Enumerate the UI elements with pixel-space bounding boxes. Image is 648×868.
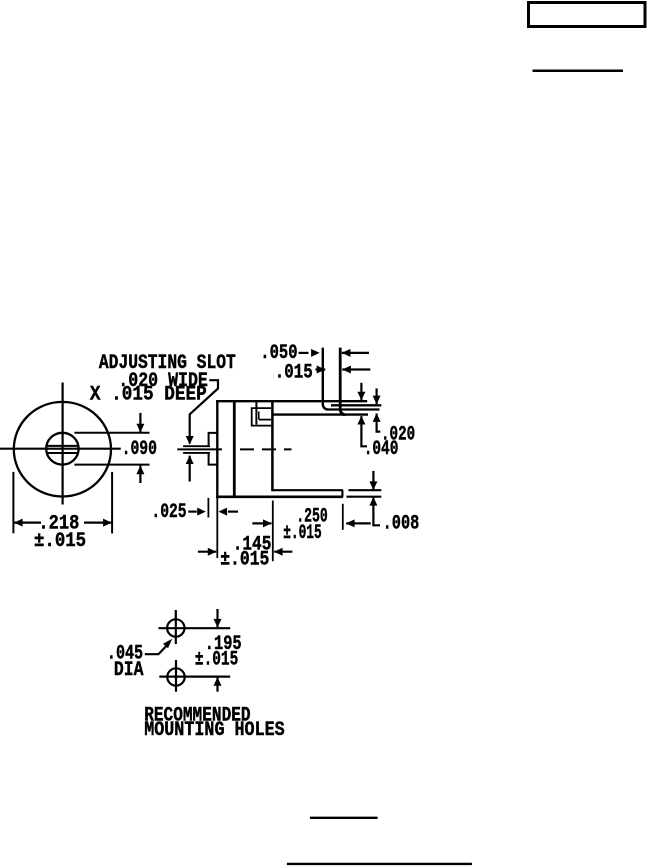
adjusting slot upper chord [47,445,79,447]
dim .145 left arrow [198,548,217,556]
dim .195 upper arrow [214,609,222,628]
dim .195 lower arrow [214,677,222,692]
dim .015 right arrow [342,366,370,374]
body left extension line [216,494,218,558]
svg-text:DIA: DIA [114,659,144,682]
dim .218 right arrow [84,519,112,527]
bottom rule [287,863,472,865]
dim .040 lower arrow with leader [357,416,367,446]
dim .008 lower arrow with leader [369,497,380,525]
wiper detail box [252,408,272,426]
dim .090 upper arrow [136,413,144,433]
slot width lower arrow [186,455,194,481]
dim .050 left arrow [299,349,320,357]
adjustment boss outline [209,433,218,465]
svg-text:.090: .090 [122,438,157,461]
dim .090 upper extension line [74,432,149,434]
mounting hole top vertical centerline [175,610,177,644]
dim .050 right arrow [342,349,369,357]
mounting hole bottom vertical centerline [175,660,177,692]
dim .020 upper arrow [373,388,381,404]
front view outer circle [14,402,111,497]
bottom pin end edge [341,490,343,497]
pin end extension line [342,504,344,530]
middle pin top face B2 [331,404,381,406]
side view horizontal centerline solid part [177,448,222,450]
top pin inner bend V2 [340,348,345,415]
side view internal divider line [233,400,236,498]
svg-text:±.015: ±.015 [34,530,86,553]
mounting hole top horizontal centerline [159,627,231,629]
dim .020 lower arrow with leader [373,413,381,431]
dim .218 left arrow [14,519,41,527]
body right extension line [272,501,274,562]
mounting hole bottom horizontal centerline [159,675,230,677]
adjusting slot note leader line [190,380,218,443]
dim .090 lower extension line [74,464,149,466]
title box top right [529,3,646,27]
side view body left edge [216,400,218,498]
dim .218 right extension line [111,472,113,534]
dim .025 right arrow [219,508,239,516]
svg-text:±.015: ±.015 [283,522,322,545]
slot depth lower line [183,452,210,454]
bottom pin top face [272,489,343,491]
dim .008 upper extension line [349,489,382,491]
front view horizontal centerline [0,448,121,450]
dim .008 lower extension line [347,496,382,498]
svg-text:MOUNTING HOLES: MOUNTING HOLES [144,719,285,742]
figure label underline [310,817,378,819]
wiper detail inner horizontal line [259,419,272,421]
wiper detail vertical line [255,401,257,424]
front view vertical centerline [61,383,63,505]
dim .045 leader line [145,643,169,654]
svg-text:±.015: ±.015 [195,648,238,671]
adjusting slot note leader arrowhead [186,436,194,445]
side view horizontal centerline dashes [240,448,292,450]
dim .090 lower arrow [136,465,144,483]
svg-text:±.015: ±.015 [220,549,269,572]
dim .145 right arrow [274,548,292,556]
front view inner circle [46,433,78,465]
side view body right edge [271,400,274,491]
slot depth upper line [183,445,210,447]
dim .015 left arrow [316,366,326,374]
header underline [533,70,624,73]
dim .045 leader arrowhead [163,639,172,649]
top pin outer bend V1 [323,348,328,410]
middle pin lower line B3 [328,408,380,410]
boss left extension line [207,498,209,518]
mounting hole top circle [167,619,184,636]
adjusting slot lower chord [47,452,79,454]
dim .218 left extension line [12,472,14,533]
svg-text:.025: .025 [151,501,186,524]
side view body top edge extending as pin top face [216,400,367,402]
mounting hole bottom circle [167,668,184,685]
dim .025 left arrow [188,508,206,516]
dim .250 right arrow [346,519,371,527]
wiper detail stub [258,412,260,420]
dim .040 upper arrow [357,383,365,401]
dim .008 upper arrow [369,471,377,490]
top pin horizontal bottom face B4 [273,413,368,415]
svg-text:.040: .040 [364,438,399,461]
svg-text:.008: .008 [383,513,420,536]
svg-text:.015: .015 [275,362,313,385]
dim .250 left arrow [252,519,271,527]
svg-text:X .015 DEEP: X .015 DEEP [90,384,207,407]
side view body bottom edge with pin underside [216,495,343,498]
